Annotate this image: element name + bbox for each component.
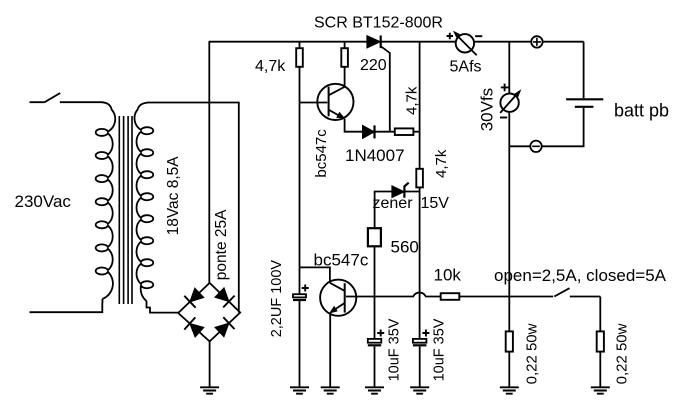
- svg-text:4,7k: 4,7k: [433, 149, 450, 178]
- wire: meter branch x=509.3 rail to R8: [508, 42, 510, 388]
- svg-text:open=2,5A, closed=5A: open=2,5A, closed=5A: [494, 266, 667, 285]
- wire: 1N4007 cathode to gate junction: [374, 131, 394, 133]
- wire: Q1 base wire: [300, 102, 328, 104]
- diode 1N4007: [363, 125, 375, 138]
- svg-text:10k: 10k: [434, 266, 462, 285]
- capacitor C3 10uF 35V: [413, 339, 427, 343]
- svg-text:bc547c: bc547c: [314, 251, 369, 270]
- svg-text:10uF 35V: 10uF 35V: [432, 318, 448, 381]
- wire: battery bottom to minus terminal wire: [509, 108, 583, 146]
- wire: bridge plus output riser x=208.5: [208, 42, 210, 284]
- svg-text:220: 220: [360, 57, 387, 74]
- switch S2 (current select): [554, 288, 600, 296]
- svg-text:1N4007: 1N4007: [345, 146, 405, 165]
- svg-text:30Vfs: 30Vfs: [477, 88, 496, 131]
- ammeter M1 5Afs: [453, 31, 477, 56]
- voltmeter plus mark: [501, 84, 509, 92]
- svg-text:5Afs: 5Afs: [450, 59, 482, 76]
- svg-text:0,22 50w: 0,22 50w: [614, 323, 631, 384]
- SCR U1 BT152-800R: [367, 36, 381, 48]
- wire: R1/base node down to C1 and Q2 collector branch: [300, 103, 330, 295]
- wire: primary bottom lead: [30, 299, 103, 312]
- ammeter minus mark: [475, 35, 482, 37]
- switch S1 mains: [30, 93, 102, 102]
- wire: Q1 emitter down and right: [345, 119, 363, 132]
- resistor R8 0,22 50w (left): [506, 331, 513, 351]
- svg-text:2,2UF 100V: 2,2UF 100V: [269, 260, 285, 338]
- svg-text:4,7k: 4,7k: [404, 86, 421, 115]
- svg-text:10uF 35V: 10uF 35V: [387, 318, 403, 381]
- wire: secondary bottom lead: [147, 301, 179, 313]
- resistor R7 0,22 50w (right): [599, 297, 601, 388]
- transistor Q2 bc547c (mirrored): [320, 280, 356, 316]
- wire: bridge bottom to ground: [209, 341, 211, 387]
- resistor R5 560: [368, 228, 381, 246]
- wire: top DC rail: [209, 41, 584, 43]
- resistor R3 4,7k horizontal (gate network): [413, 131, 419, 133]
- resistor R6 10k: [441, 293, 460, 300]
- ground: C2: [365, 387, 384, 393]
- wire: secondary top to bridge AC right: [148, 103, 239, 313]
- svg-text:ponte 25A: ponte 25A: [213, 209, 230, 280]
- svg-text:0,22 50w: 0,22 50w: [524, 323, 541, 384]
- wire: battery top from rail: [583, 42, 585, 98]
- bridge diode D3 (bottom-left edge, cathode to left corner): [190, 324, 204, 338]
- svg-text:SCR BT152-800R: SCR BT152-800R: [314, 15, 443, 32]
- battery B1: [566, 98, 603, 100]
- svg-text:15V: 15V: [421, 195, 450, 212]
- zener diode ZD1 15V: [392, 186, 404, 198]
- wire: 560 to bottom wire and C2: [374, 246, 376, 339]
- svg-text:4,7k: 4,7k: [255, 58, 286, 75]
- ground: Q2 emitter: [321, 387, 340, 393]
- svg-text:18Vac 8,5A: 18Vac 8,5A: [165, 156, 182, 236]
- bridge rectifier: diamond wires: [178, 283, 240, 342]
- svg-text:560: 560: [391, 238, 419, 257]
- voltmeter M2 30Vfs: [500, 89, 521, 113]
- svg-text:zener: zener: [373, 195, 414, 212]
- bridge diode D1 (top-left edge, cathode to left corner): [190, 288, 204, 302]
- transformer T1 secondary winding: [135, 103, 154, 302]
- ground: R7: [591, 387, 610, 393]
- ground: C3: [410, 387, 429, 393]
- bridge diode D4 (bottom-right edge, cathode to right corner): [215, 323, 229, 337]
- wire: bottom control wire y=296.5 with hop over line A: [346, 293, 553, 297]
- resistor R4 4,7k vertical: [416, 169, 423, 188]
- transformer T1 core: [119, 116, 132, 304]
- voltmeter minus mark: [500, 117, 507, 119]
- ammeter plus mark: [447, 33, 453, 39]
- wire: line A zener junction down to C3 (passes under hop): [419, 192, 421, 339]
- transformer T1 primary winding: [96, 102, 116, 299]
- resistor R2 220 (rail to Q1 collector): [344, 42, 346, 87]
- svg-text:batt pb: batt pb: [614, 101, 669, 121]
- svg-text:230Vac: 230Vac: [15, 192, 72, 211]
- ground: R8: [500, 387, 519, 393]
- plus terminal (circle +): [531, 36, 542, 47]
- capacitor C2 10uF 35V: [368, 339, 382, 343]
- svg-text:bc547c: bc547c: [313, 129, 330, 178]
- wire: SCR gate: [381, 46, 390, 132]
- resistor R1 4,7k (rail to Q1 base): [299, 42, 301, 103]
- minus terminal (circle -): [530, 141, 541, 152]
- ground: bridge: [200, 387, 219, 393]
- wire: Q2 emitter to ground: [329, 313, 331, 387]
- capacitor C1 2,2UF 100V: [293, 294, 306, 297]
- ground: C1: [290, 387, 309, 393]
- transistor Q1 bc547c: [317, 84, 353, 120]
- wire: line A x=419.6 rail to zener junction: [419, 42, 421, 192]
- bridge diode D2 (top-right edge, cathode to right corner): [215, 288, 229, 302]
- wire: zener connections: [375, 192, 420, 229]
